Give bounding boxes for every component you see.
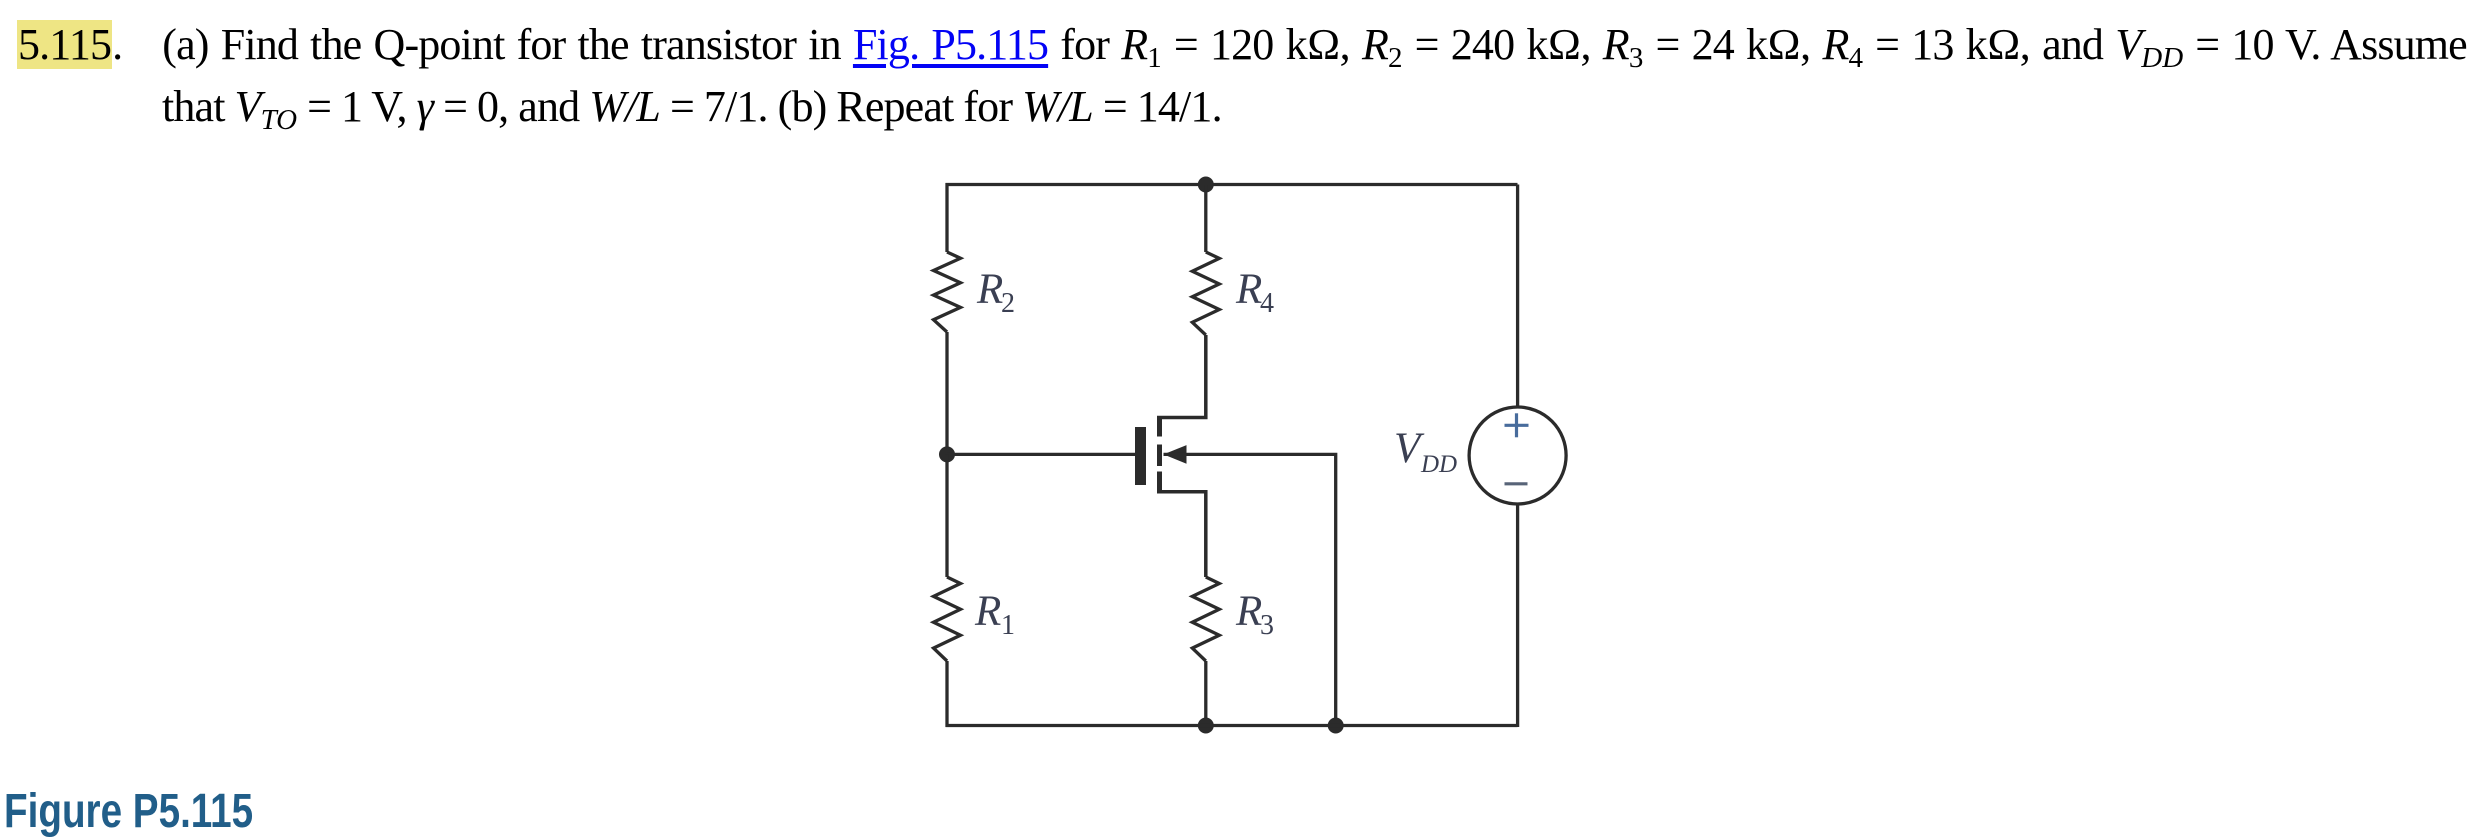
resistor R2	[934, 252, 961, 332]
resistor R1	[934, 577, 961, 661]
svg-text:4: 4	[1260, 288, 1274, 319]
transistor M1 channel dash middle	[1157, 445, 1162, 467]
svg-text:R: R	[1235, 266, 1262, 313]
transistor M1 channel dash top	[1157, 419, 1162, 437]
resistor R3	[1192, 577, 1219, 661]
wire source connection	[1157, 492, 1206, 577]
wire right branch lower	[1516, 504, 1519, 727]
transistor M1 channel dash bottom	[1157, 472, 1162, 492]
label VDD minus	[1505, 482, 1528, 485]
node bottom body junction	[1328, 718, 1344, 734]
problem text line 2	[162, 85, 1222, 129]
problem text line 1	[17, 23, 2467, 67]
wire middle branch upper	[1204, 185, 1207, 253]
wire bottom rail	[946, 724, 1518, 727]
wire body return	[1164, 454, 1336, 725]
wire left branch lower	[945, 454, 948, 577]
wire top rail	[946, 183, 1518, 186]
voltage source VDD circle	[1469, 407, 1566, 504]
svg-text:R: R	[976, 266, 1003, 313]
label VDD plus	[1505, 413, 1529, 437]
transistor M1 body arrow	[1164, 445, 1187, 464]
svg-text:DD: DD	[1420, 451, 1457, 478]
figure caption	[4, 788, 253, 836]
transistor M1 gate bar	[1135, 427, 1146, 485]
svg-text:1: 1	[1001, 610, 1015, 641]
svg-text:3: 3	[1260, 610, 1274, 641]
wire left branch bottom	[945, 661, 948, 727]
wire right branch upper	[1516, 185, 1519, 408]
node bottom middle junction	[1198, 718, 1214, 734]
svg-text:R: R	[1235, 588, 1262, 635]
svg-text:2: 2	[1001, 288, 1015, 319]
wire left branch upper	[945, 183, 948, 252]
svg-text:R: R	[974, 588, 1001, 635]
resistor R4	[1192, 252, 1219, 335]
wire drain connection	[1157, 335, 1206, 418]
wire middle branch lower	[1204, 661, 1207, 726]
wire gate	[947, 453, 1135, 456]
node top junction	[1198, 177, 1214, 193]
node gate junction	[939, 446, 955, 462]
wire left branch middle	[945, 332, 948, 454]
